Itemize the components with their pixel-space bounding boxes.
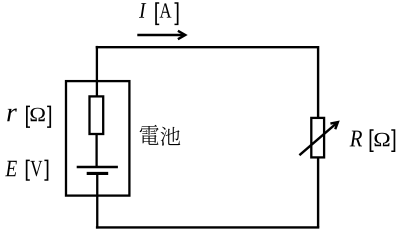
battery cell: long positive plate	[77, 166, 118, 169]
battery box (rectangle around cell)	[66, 81, 129, 196]
variable-resistor diagonal arrow shaft	[299, 123, 337, 155]
current arrow I head	[178, 31, 185, 39]
label r [Ω] : close bracket	[47, 106, 51, 128]
label E [V] : italic E	[5, 161, 17, 176]
label r [Ω] : open bracket	[26, 106, 30, 128]
label I [A] : open bracket	[155, 2, 159, 25]
variable-resistor diagonal arrow head	[330, 122, 337, 129]
label E [V] : letter V	[30, 161, 42, 176]
label R [Ω] : open bracket	[370, 129, 374, 152]
label 電池 (battery) : kanji 電	[140, 125, 159, 145]
label R [Ω] : close bracket	[391, 129, 395, 152]
resistor r (internal resistance, rectangle)	[90, 96, 104, 134]
wire: vertical from top rail down into battery box to resistor r	[96, 46, 98, 97]
label E [V] : close bracket	[44, 160, 48, 181]
wire: left vertical from bottom rail up to battery negative plate	[96, 173, 98, 229]
battery cell: short negative plate	[87, 172, 109, 175]
label R [Ω] : italic R	[350, 131, 362, 147]
wire: between internal resistor r and battery positive plate	[95, 134, 97, 167]
label r [Ω] : omega	[30, 108, 44, 122]
resistor R (variable load, rectangle)	[311, 118, 324, 157]
label 電池 (battery) : kanji 池	[160, 127, 180, 146]
wire: right rail (top corner down to bottom corner, through R)	[317, 46, 319, 227]
wire: top rail from battery node to right rail	[96, 46, 318, 48]
label r [Ω] : italic r	[7, 109, 17, 122]
wire: bottom rail	[96, 226, 319, 228]
label E [V] : open bracket	[26, 160, 30, 181]
label R [Ω] : omega	[375, 133, 390, 147]
label I [A] : letter A	[160, 3, 172, 17]
label I [A] : italic I	[139, 3, 146, 18]
current arrow I shaft	[137, 34, 185, 36]
label I [A] : close bracket	[175, 2, 179, 25]
